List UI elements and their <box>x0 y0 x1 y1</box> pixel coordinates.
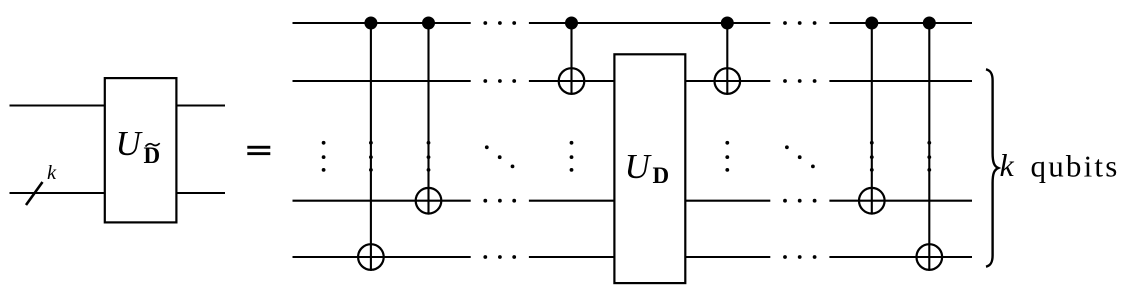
cdots group 2 wire 4 <box>783 199 816 203</box>
cdots group 2 wire 2 <box>783 79 816 83</box>
CNOT E target on wire 4 <box>859 188 885 214</box>
CNOT E vertical line <box>871 23 873 215</box>
cdots group 1 wire 1 <box>483 21 516 25</box>
bus slash on left bottom wire <box>26 182 43 205</box>
CNOT B vertical line <box>427 23 429 215</box>
wire 2 segment 1 <box>293 80 471 82</box>
wire: left circuit top wire, left segment <box>10 104 106 106</box>
CNOT A control dot <box>364 17 377 30</box>
svg-text:U: U <box>625 147 653 186</box>
wire 2 segment 2 <box>529 80 614 82</box>
CNOT C vertical line <box>570 23 572 95</box>
vdots on CNOT A line <box>369 141 373 172</box>
cdots group 2 wire 1 <box>783 21 816 25</box>
CNOT D target on wire 2 <box>715 68 741 94</box>
CNOT D vertical line <box>726 23 728 95</box>
svg-text:qubits: qubits <box>1031 149 1120 184</box>
wire 1 segment 3 <box>829 22 972 24</box>
cdots group 1 wire 5 <box>483 255 516 259</box>
CNOT A target on wire 5 <box>358 244 384 270</box>
wire 4 segment 1 <box>293 200 471 202</box>
right curly brace spanning k qubits <box>986 69 998 266</box>
CNOT E control dot <box>865 17 878 30</box>
wire: left circuit bottom wire, right segment <box>177 192 226 194</box>
CNOT A vertical line <box>370 23 372 271</box>
vdots column at C <box>570 141 574 172</box>
svg-text:k: k <box>47 162 57 184</box>
cdots group 2 wire 5 <box>783 255 816 259</box>
svg-text:U: U <box>116 124 144 163</box>
vdots column at D <box>725 141 729 172</box>
wire 1 segment 2 <box>529 22 770 24</box>
equals sign <box>247 146 270 149</box>
cdots group 1 wire 4 <box>483 199 516 203</box>
gate box U_Dtilde <box>105 78 177 222</box>
wire 5 segment 1 <box>293 256 471 258</box>
CNOT B target on wire 4 <box>416 188 442 214</box>
wire 5 segment 3 <box>686 256 770 258</box>
vdots on CNOT B line <box>427 141 431 172</box>
svg-text:D: D <box>653 163 670 188</box>
CNOT F target on wire 5 <box>917 244 943 270</box>
wire 2 segment 3 <box>686 80 770 82</box>
tilde over subscript D <box>146 143 160 146</box>
CNOT F control dot <box>923 17 936 30</box>
CNOT C target on wire 2 <box>559 68 585 94</box>
ddots group 1 <box>485 145 515 168</box>
wire 5 segment 4 <box>829 256 972 258</box>
vdots on CNOT E line <box>870 141 874 172</box>
wire 1 (top) segment 1 <box>293 22 471 24</box>
wire 4 segment 2 <box>529 200 614 202</box>
wire: left circuit top wire, right segment <box>177 104 226 106</box>
CNOT C control dot <box>565 17 578 30</box>
wire 4 segment 3 <box>686 200 770 202</box>
wire 4 segment 4 <box>829 200 972 202</box>
wire: left circuit bottom wire, left segment <box>10 192 106 194</box>
CNOT F vertical line <box>928 23 930 271</box>
svg-text:k: k <box>1000 147 1015 183</box>
vdots on CNOT F line <box>927 141 931 172</box>
CNOT B control dot <box>422 17 435 30</box>
CNOT D control dot <box>721 17 734 30</box>
vdots column 1 (x=323.6) <box>322 141 326 172</box>
wire 2 segment 4 <box>829 80 972 82</box>
wire 5 segment 2 <box>529 256 614 258</box>
gate box U_D <box>614 54 685 283</box>
cdots group 1 wire 2 <box>483 79 516 83</box>
ddots group 2 <box>785 145 815 168</box>
